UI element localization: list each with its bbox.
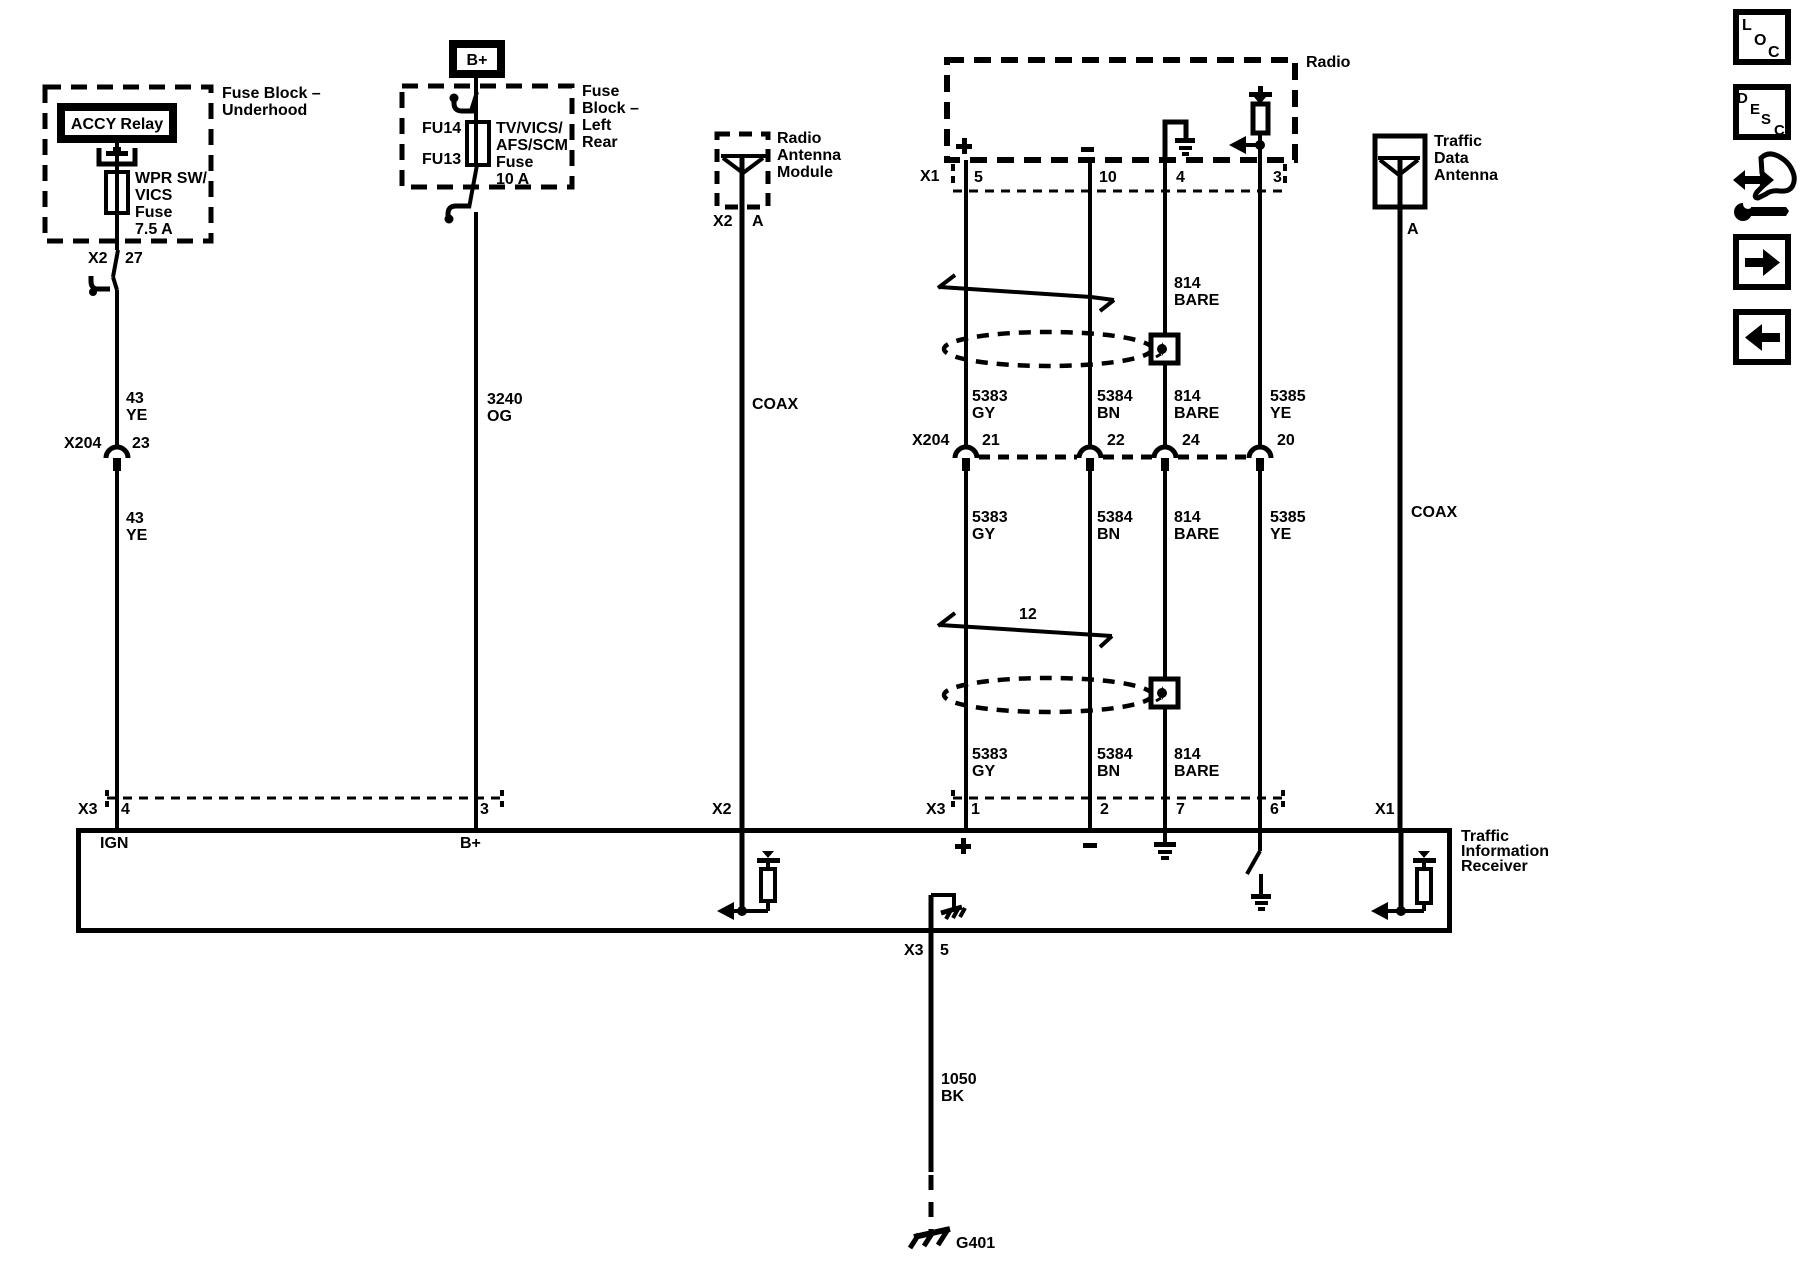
shield ellipse lower [944,678,1152,712]
icon box DESC [1736,87,1788,139]
wire label 814 BARE upper [1174,275,1220,309]
wire radio pin3 upper [1258,160,1262,446]
svg-text:G401: G401 [956,1235,995,1252]
svg-text:Fuse Block –: Fuse Block – [222,85,321,102]
svg-text:B+: B+ [467,52,488,69]
receiver X3 pin 5 labels [904,942,949,959]
svg-text:YE: YE [126,527,148,544]
svg-text:5385: 5385 [1270,388,1306,405]
radio plus sign [956,138,972,154]
wire B+ to fuse [474,78,478,122]
svg-text:21: 21 [982,432,1000,449]
svg-text:D: D [1737,90,1748,107]
svg-text:5383: 5383 [972,746,1008,763]
svg-text:Module: Module [777,164,833,181]
svg-text:BN: BN [1097,405,1120,422]
svg-text:3240: 3240 [487,391,523,408]
wire labels bottom: 814 BARE [1174,746,1220,780]
antenna symbol in module [721,156,766,173]
svg-text:Fuse: Fuse [135,204,172,221]
svg-text:BN: BN [1097,763,1120,780]
fuse TV/VICS label [496,120,568,188]
traffic information receiver box [79,831,1450,931]
svg-text:Radio: Radio [1306,54,1351,71]
X204 arc pin 24 [1154,447,1176,471]
X204 arc pin 22 [1079,447,1101,471]
svg-text:27: 27 [125,250,143,267]
inline connector X204 pin 23 [64,435,150,471]
svg-text:20: 20 [1277,432,1295,449]
dashed wire to G401 [929,1175,934,1232]
svg-text:Left: Left [582,117,612,134]
svg-text:ACCY Relay: ACCY Relay [71,116,163,133]
wire fuse to X2 connector [113,213,118,290]
wire labels below X204: 5384 BN [1097,509,1133,543]
ground G401 label [956,1235,995,1252]
svg-text:X3: X3 [78,801,98,818]
svg-text:7: 7 [1176,801,1185,818]
svg-text:5384: 5384 [1097,746,1133,763]
svg-text:10: 10 [1099,169,1117,186]
radio X1 pin labels [920,168,1282,186]
svg-text:Fuse: Fuse [496,154,533,171]
svg-text:Block –: Block – [582,100,639,117]
wire 1050 BK [929,933,934,1172]
svg-text:22: 22 [1107,432,1125,449]
inline connector X204 row labels [912,432,1295,449]
wire label 43 YE upper [126,390,148,424]
svg-text:814: 814 [1174,509,1201,526]
fuse WPR SW/VICS 7.5A [106,172,128,213]
svg-text:BARE: BARE [1174,526,1220,543]
receiver antenna symbol at X2 [717,828,780,920]
wire 5383 GY lower [964,471,968,828]
radio label [1306,54,1351,71]
svg-text:5384: 5384 [1097,388,1133,405]
receiver switch pin 6 [1247,828,1260,874]
fuse block left rear dashed box [402,86,572,187]
icon box right arrow [1736,237,1788,287]
svg-text:WPR SW/: WPR SW/ [135,170,208,187]
fuse FU labels [422,120,461,168]
receiver plus sign [955,838,971,854]
svg-text:2: 2 [1100,801,1109,818]
svg-text:3: 3 [1273,169,1282,186]
radio antenna module label [777,130,841,181]
svg-text:Antenna: Antenna [777,147,841,164]
svg-text:BK: BK [941,1088,965,1105]
connector X2 label receiver [712,801,732,818]
svg-text:YE: YE [126,407,148,424]
svg-text:A: A [752,213,764,230]
svg-text:814: 814 [1174,275,1201,292]
receiver antenna symbol at X1 [1371,828,1436,920]
svg-text:AFS/SCM: AFS/SCM [496,137,568,154]
fuse block underhood dashed box [45,87,211,241]
svg-text:10 A: 10 A [496,171,530,188]
radio internal antenna resistor pin 3 [1249,86,1272,160]
svg-text:X204: X204 [912,432,949,449]
svg-text:814: 814 [1174,746,1201,763]
radio minus sign [1081,147,1094,152]
terminal hook FU13 [445,206,472,224]
svg-text:5: 5 [940,942,949,959]
wire label 1050 BK [941,1071,977,1105]
wire labels below X204: 5385 YE [1270,509,1306,543]
wire labels bottom: 5383 GY [972,746,1008,780]
svg-text:814: 814 [1174,388,1201,405]
wire labels above X204: 5383 GY [972,388,1008,422]
ground G401 symbol [910,1229,950,1248]
data antenna pin A label [1407,221,1419,238]
svg-text:7.5 A: 7.5 A [135,221,173,238]
drain wire box lower [1151,679,1178,707]
wire 5384 BN lower [1088,471,1092,828]
fuse block left rear label [582,83,639,151]
wire below fuse with jog [469,165,477,208]
traffic data antenna label [1434,133,1498,184]
svg-text:5384: 5384 [1097,509,1133,526]
svg-text:12: 12 [1019,606,1037,623]
X204 arc pin 21 [955,447,977,471]
svg-text:Underhood: Underhood [222,102,307,119]
svg-text:43: 43 [126,390,144,407]
svg-text:BN: BN [1097,526,1120,543]
svg-text:X2: X2 [88,250,108,267]
receiver chassis ground X3 pin 5 [931,895,965,933]
radio internal ground pin 4 [1165,122,1195,160]
svg-text:FU14: FU14 [422,120,461,137]
svg-text:4: 4 [121,801,130,818]
radio internal arrow pin 3 [1229,136,1265,154]
svg-text:A: A [1407,221,1419,238]
wire label 3240 OG [487,391,523,425]
wire 43 YE lower [115,471,119,828]
svg-text:FU13: FU13 [422,151,461,168]
shield ellipse upper [944,332,1152,366]
svg-text:C: C [1768,44,1780,61]
wire from relay to fuse [115,143,119,172]
wire COAX left [740,156,745,828]
wire labels above X204: 5385 YE [1270,388,1306,422]
svg-text:GY: GY [972,763,995,780]
fuse block underhood label [222,85,321,119]
icon box left arrow [1736,312,1788,362]
svg-text:E: E [1750,101,1760,118]
relay terminal T-bar [106,147,128,156]
svg-text:1050: 1050 [941,1071,977,1088]
svg-text:VICS: VICS [135,187,173,204]
svg-text:GY: GY [972,526,995,543]
radio dashed box [947,60,1295,160]
svg-text:COAX: COAX [752,396,799,413]
traffic information receiver label [1461,828,1549,875]
svg-text:5385: 5385 [1270,509,1306,526]
fuse TV/VICS 10A [467,122,489,165]
module connector X2 pin A labels [713,213,764,230]
wire label COAX left [752,396,799,413]
icon box LOC [1736,12,1788,62]
svg-text:24: 24 [1182,432,1200,449]
receiver IGN label [100,835,128,852]
fuse WPR label [135,170,208,238]
svg-text:3: 3 [480,801,489,818]
receiver ground pin 7 [1154,828,1176,860]
terminal hook FU14 [450,92,479,111]
wire label 43 YE lower [126,510,148,544]
wire radio pin5 upper [964,160,968,446]
svg-text:X2: X2 [712,801,732,818]
svg-text:Fuse: Fuse [582,83,619,100]
svg-text:YE: YE [1270,405,1292,422]
terminal hook at X2 27 [89,276,110,296]
wire COAX right [1398,158,1403,828]
wire labels below X204: 5383 GY [972,509,1008,543]
svg-text:O: O [1754,32,1766,49]
svg-text:TV/VICS/: TV/VICS/ [496,120,563,137]
svg-text:Data: Data [1434,150,1469,167]
antenna symbol in data antenna box [1378,158,1420,175]
traffic data antenna box [1375,136,1425,207]
svg-text:43: 43 [126,510,144,527]
wire 43 YE upper [115,290,119,446]
wire 3240 OG [474,212,478,828]
svg-text:1: 1 [971,801,980,818]
svg-text:S: S [1761,111,1771,128]
wire radio pin4 upper [1163,160,1167,446]
connector X1 label receiver [1375,801,1395,818]
svg-text:C: C [1774,122,1785,139]
svg-text:GY: GY [972,405,995,422]
svg-text:BARE: BARE [1174,763,1220,780]
svg-text:Antenna: Antenna [1434,167,1498,184]
connector X2 pin 27 labels [88,250,143,267]
svg-text:5: 5 [974,169,983,186]
svg-text:X3: X3 [926,801,946,818]
receiver B+ label [460,835,481,852]
svg-text:5383: 5383 [972,509,1008,526]
icon vehicle with double arrow and wrench [1733,154,1794,221]
radio antenna module dashed box [717,134,768,207]
wire radio pin10 upper [1088,160,1092,446]
wire labels bottom: 5384 BN [1097,746,1133,780]
svg-text:Rear: Rear [582,134,618,151]
twisted pair symbol upper [938,275,1114,311]
svg-text:X2: X2 [713,213,733,230]
twisted pair symbol lower with label 12 [938,606,1112,647]
svg-text:5383: 5383 [972,388,1008,405]
svg-text:4: 4 [1176,169,1185,186]
svg-text:X1: X1 [920,168,940,185]
radio connector X1 row [953,164,1285,191]
svg-text:Radio: Radio [777,130,822,147]
svg-text:X204: X204 [64,435,101,452]
svg-text:BARE: BARE [1174,405,1220,422]
svg-text:L: L [1742,17,1752,34]
drain wire box upper [1151,335,1178,363]
svg-text:B+: B+ [460,835,481,852]
B+ power symbol box [453,44,501,74]
receiver switch ground [1251,874,1271,911]
wire labels below X204: 814 BARE [1174,509,1220,543]
svg-text:X3: X3 [904,942,924,959]
X204 dashed joining line [979,455,1247,460]
svg-text:IGN: IGN [100,835,128,852]
svg-text:Traffic: Traffic [1434,133,1482,150]
receiver minus sign [1083,843,1097,848]
wire labels above X204: 814 BARE [1174,388,1220,422]
svg-text:X1: X1 [1375,801,1395,818]
svg-text:BARE: BARE [1174,292,1220,309]
svg-text:COAX: COAX [1411,504,1458,521]
svg-text:YE: YE [1270,526,1292,543]
X3 middle pin labels [926,801,1279,818]
relay terminal cup [99,148,135,164]
wire label COAX right [1411,504,1458,521]
wire labels above X204: 5384 BN [1097,388,1133,422]
svg-text:OG: OG [487,408,512,425]
X204 arc pin 20 [1249,447,1271,471]
svg-text:6: 6 [1270,801,1279,818]
wire 5385 YE lower [1258,471,1262,828]
ACCY relay box [61,107,173,139]
wire 814 BARE lower [1163,471,1167,828]
svg-text:Receiver: Receiver [1461,858,1528,875]
connector X3 row left [107,790,502,810]
X3 left pin labels [78,801,489,818]
connector X3 row middle [953,790,1283,810]
svg-text:23: 23 [132,435,150,452]
